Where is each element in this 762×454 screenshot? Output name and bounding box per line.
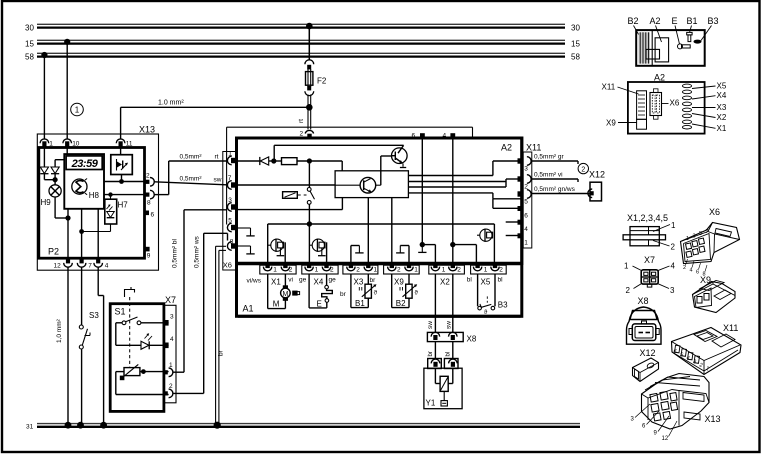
node diodes join [44,177,57,182]
wire P2 pin2 to X6 pin7 (sw) [154,176,226,185]
connector drawing X11 (isometric) [672,323,742,375]
svg-text:F2: F2 [317,77,327,86]
svg-text:B3: B3 [498,301,508,310]
svg-text:0,5mm² ws: 0,5mm² ws [194,235,201,268]
X11 pin 4 [518,220,529,233]
svg-text:1: 1 [228,151,232,158]
svg-text:8: 8 [230,239,234,246]
connector drawing X8 (face) [627,296,662,344]
X11 pin1 inner stub [506,235,521,237]
temperature sensor B1 under X3 [351,274,378,308]
svg-text:0,5mm² gr: 0,5mm² gr [534,154,564,161]
fuse F2 [306,69,327,87]
X11 pin 5 [518,190,532,206]
connector X13 enclosure [37,125,158,271]
A2 top pin 6 [412,133,425,140]
potentiometer in S1 [116,364,169,394]
svg-text:2: 2 [457,267,461,274]
glow plug E under X4 [309,274,332,309]
bus 31 [26,424,580,431]
X13 pin 9 (right, square) [145,247,151,260]
svg-text:P2: P2 [48,247,59,257]
svg-text:br: br [340,291,347,298]
svg-text:E: E [317,300,322,309]
svg-text:4: 4 [443,133,447,140]
svg-text:1: 1 [414,267,418,274]
connector X12 [588,170,605,201]
connector X1 housing [260,264,296,287]
display 23:59 [66,156,102,170]
svg-text:X11: X11 [723,323,738,333]
connector drawing X12 (isometric) [633,348,659,382]
svg-text:3: 3 [170,314,174,321]
svg-text:2: 2 [169,383,173,390]
svg-text:X1: X1 [271,278,281,287]
top inner wire to transistor [274,145,403,161]
base wire IC to Q1 [381,156,392,185]
svg-text:X8: X8 [467,335,477,344]
manual actuator above S1 [125,287,135,297]
X11 pin 6 [518,206,529,220]
X6 pin 3 [227,197,236,211]
A2 layout labels X11 X9 X6 [602,83,680,128]
svg-text:X12: X12 [640,348,656,358]
wire H8 to P2 pin 2 [104,181,145,183]
svg-text:6: 6 [412,133,416,140]
svg-text:sw: sw [214,177,222,184]
svg-text:B1: B1 [687,16,698,26]
svg-text:2: 2 [397,267,401,274]
A2 top pin 2 [300,130,314,138]
svg-text:X5: X5 [481,278,491,287]
svg-text:rt: rt [298,119,305,123]
connector X4 housing [302,264,338,287]
wire pin11 into opto box [120,147,122,155]
svg-text:vi/ws: vi/ws [247,277,262,284]
connector X3 housing [343,264,378,287]
svg-text:X6: X6 [670,99,680,108]
connector pair above F2 [305,60,314,70]
connector pair below F2 [305,86,314,96]
svg-text:br: br [218,349,225,356]
dashed actuator link in S1 [129,297,131,368]
svg-text:6: 6 [696,270,699,276]
A2 top pin 4 [443,133,456,140]
LED H7 box [105,199,128,224]
wire lamp to pin12 wire [55,197,71,221]
motor M under X1 [268,274,300,309]
svg-text:31: 31 [26,424,34,431]
bus 30 [25,23,580,32]
H7 stub to pin8 line [108,192,112,199]
svg-text:2: 2 [626,286,631,295]
bus 58 [25,52,580,61]
X13 pin 4 (bottom) [94,258,109,269]
wire pin10 into H8 box [66,147,68,155]
svg-text:1: 1 [671,221,676,230]
bus 15 [25,39,580,48]
transistor Q1 [392,145,408,167]
X13 pin 11 [116,139,133,148]
svg-text:X11: X11 [602,83,616,92]
svg-text:15: 15 [25,39,34,48]
X13 pin 2 (right) [145,172,155,186]
svg-text:30: 30 [571,23,580,32]
wire P2 pin8 to X6 pin1 (rt) [154,154,226,195]
wire 1.0mm2 from X13 pin11 to F2 node [121,100,310,140]
svg-text:X6: X6 [709,207,720,217]
LED in S1 [116,323,169,350]
X11 pin4 inner stub [506,221,521,223]
svg-text:1.0 mm²: 1.0 mm² [158,100,184,107]
svg-text:2: 2 [330,267,334,274]
svg-text:X4: X4 [314,278,324,287]
clock module H8 box [64,154,104,209]
svg-text:bl: bl [498,277,504,284]
svg-text:0,5mm² bl: 0,5mm² bl [172,239,179,268]
wire pin4 to bus31 [98,267,107,429]
svg-text:1: 1 [49,141,53,148]
X7 pin 1 [163,362,173,377]
connector X8 [427,332,476,343]
svg-text:2: 2 [499,267,503,274]
wires X2 to X8 (sw) [427,274,453,333]
connector drawing X1,2,3,4,5 [623,213,676,252]
svg-text:1: 1 [442,267,446,274]
wire X6 pin5 over A2 top [227,127,473,224]
A2 top pin4 wire down to X2/X5 [450,138,476,264]
svg-text:7: 7 [88,263,92,270]
heater overview box with B2 A2 E B1 B3 [628,16,719,66]
svg-text:ge: ge [329,276,337,283]
svg-text:12: 12 [54,263,62,270]
X6 pin7 wire into IC [238,184,335,186]
X13 pin 6 (right, square) [145,211,155,219]
svg-text:4: 4 [170,336,174,343]
X11 pin 2 [518,175,532,191]
svg-text:bl: bl [467,277,473,284]
X9 pin1 stub [396,246,409,264]
connector X11 enclosure [523,143,541,249]
svg-text:M: M [282,291,288,298]
svg-text:X9: X9 [606,119,616,128]
svg-text:X1,2,3,4,5: X1,2,3,4,5 [627,213,668,223]
svg-text:X12: X12 [589,170,605,180]
svg-text:H7: H7 [118,201,129,210]
optocoupler box in P2 [111,155,133,175]
H8 bottom wires to pins 12 7 4 [68,209,98,258]
svg-text:30: 30 [25,23,34,32]
X6 pin8 inner stub [238,246,255,254]
centre distribution node [268,221,495,263]
svg-text:0,5mm²: 0,5mm² [180,176,203,183]
X6 pin 1 [227,151,236,165]
svg-text:X11: X11 [526,143,541,153]
connector X6 enclosure [223,152,237,271]
svg-text:5: 5 [524,199,528,206]
svg-text:X13: X13 [139,125,155,135]
IC wire down to X3 pin1 [367,198,369,264]
svg-text:X8: X8 [638,296,649,306]
svg-text:vi: vi [288,276,293,283]
IC output lines to X11 [408,161,520,199]
svg-text:11: 11 [126,141,133,148]
wire colour labels row [247,276,504,298]
svg-text:rt: rt [215,154,219,161]
wire X7 pin2 to X6 pin8 (ws) [173,233,228,393]
wire pin7 via switch S3 to bus31 [77,267,87,429]
X7 pin 4 [163,336,174,348]
wire pin12 to bus31 [56,267,71,429]
X13 pin 10 [63,139,80,148]
svg-text:X9: X9 [394,278,404,287]
X6 pin 5 [227,218,236,232]
svg-text:1: 1 [315,267,319,274]
switch in A2 on centre wire [307,164,314,224]
svg-text:58: 58 [25,52,34,61]
A2 top pin6 wire down to node [418,138,435,264]
svg-text:3: 3 [524,166,528,173]
connector X9 housing [384,264,420,287]
svg-text:2: 2 [300,131,304,138]
overheat switch B3 under X5 [478,274,509,316]
svg-text:1: 1 [75,105,80,114]
svg-text:9: 9 [147,253,151,260]
svg-text:1: 1 [686,236,689,242]
svg-text:A1: A1 [243,304,254,314]
flame detector symbol at X5 [477,229,493,242]
A2 layout labels X5 X4 X3 X2 X1 [692,82,727,133]
svg-text:6: 6 [524,213,528,220]
svg-text:3: 3 [228,197,232,204]
double wire F2 to A2 pin2, junction dot [298,95,313,130]
circled 2 [578,163,588,173]
svg-text:1: 1 [484,267,488,274]
svg-text:X3: X3 [717,103,727,112]
svg-text:0,5mm² gn/ws: 0,5mm² gn/ws [534,186,576,193]
svg-text:X2: X2 [440,278,450,287]
svg-text:E: E [672,16,678,26]
svg-text:H9: H9 [41,198,52,207]
lamp H9 [41,185,62,207]
svg-text:5: 5 [228,218,232,225]
wire opto to pin2 line [119,175,124,184]
svg-text:1: 1 [524,240,528,247]
X13 pin 12 (bottom) [54,258,73,269]
svg-text:4: 4 [105,263,109,270]
X6 pin 7 [227,175,236,189]
svg-text:S1: S1 [115,307,126,317]
svg-text:2: 2 [289,267,293,274]
svg-text:7: 7 [706,229,709,235]
svg-text:8: 8 [147,200,151,207]
svg-text:br: br [428,351,434,356]
timer P2 box [39,148,145,259]
svg-text:X2: X2 [717,113,727,122]
svg-text:B2: B2 [628,16,639,26]
svg-text:X7: X7 [165,295,176,305]
X13 pin 8 (right) [145,190,155,206]
double wire X6 pin8 to bus31 (br) [214,246,226,429]
A2 connector row (bottom edge of A2) [238,262,521,265]
svg-text:3: 3 [670,286,675,295]
temperature sensor B2 under X9 [392,274,419,308]
svg-text:23:59: 23:59 [71,158,99,170]
svg-text:5: 5 [699,231,702,237]
svg-text:1: 1 [273,267,277,274]
A2 connector layout box [628,73,705,134]
wire bus58 to X13 pin1 [41,52,47,140]
svg-text:X3: X3 [354,278,364,287]
diode in A2 [238,157,276,165]
X6 pin3 wire into IC bottom [238,198,342,210]
wire gr from X11 pin3 [531,154,578,164]
transistor Q2 in IC box [335,177,381,193]
wire X7 pin1 to X6 pin3 (bl) [172,210,227,372]
svg-text:X7: X7 [644,255,655,265]
solenoid valve Y1 [424,368,462,409]
svg-text:X6: X6 [223,261,232,270]
Y1 pin housings [428,359,458,369]
svg-text:2: 2 [581,166,585,173]
connector drawing X9 (isometric) [693,275,736,313]
circled 1 [71,103,84,116]
flame detector symbol at X4 [309,239,326,264]
svg-text:58: 58 [571,52,580,61]
svg-text:H8: H8 [89,191,100,200]
switch unit S1 box [110,304,164,412]
switch S3 label and actuator [85,311,100,336]
X11 pin6 inner stub [493,199,521,209]
svg-text:0,5mm²: 0,5mm² [180,154,203,161]
svg-text:X5: X5 [717,82,727,91]
connector X2 housing [429,264,465,287]
svg-text:ge: ge [299,276,307,283]
wire bus30 down to F2 [306,23,313,61]
svg-text:S3: S3 [89,311,99,320]
wire vi from X11 pin2 [531,172,578,182]
connector drawing X6 (isometric) [681,207,740,278]
X13 pin 7 (bottom) [77,258,92,269]
connector X7 enclosure [164,295,176,403]
X11 pin 3 [518,157,532,173]
IC wire down to X9 pin2 [391,198,393,264]
svg-text:A2: A2 [650,16,661,26]
svg-text:0,5mm² vi: 0,5mm² vi [534,172,563,179]
svg-text:1: 1 [169,362,173,369]
wires X8 to Y1 [428,342,453,359]
svg-text:2: 2 [683,265,686,271]
svg-text:2: 2 [671,243,676,252]
svg-text:X4: X4 [717,91,727,100]
svg-text:12: 12 [662,436,669,442]
connector X5 housing [471,264,507,287]
flame detector symbol at X1 [268,239,286,264]
svg-text:4: 4 [690,268,693,274]
X7 pin 2 [163,383,173,398]
resistor in A2 [274,158,342,171]
connector drawing X7 (face) [624,255,676,295]
svg-text:B1: B1 [355,299,365,308]
svg-text:M: M [273,300,280,309]
svg-text:2: 2 [356,267,360,274]
A1 bottom edge [238,315,521,318]
X6 pin 8 [227,239,236,251]
svg-text:4: 4 [524,226,528,233]
X7 pin 3 [163,314,174,326]
X3 pin2 stub [351,246,364,264]
motor symbol in H8 [72,179,87,195]
svg-text:sw: sw [427,321,434,329]
IC box in A2 [335,171,408,198]
svg-text:B3: B3 [708,16,719,26]
svg-text:B2: B2 [396,299,406,308]
X11 pin 1 [518,233,529,246]
svg-text:X1: X1 [717,124,727,133]
svg-text:1: 1 [374,267,378,274]
svg-text:sw: sw [445,321,452,329]
svg-text:10: 10 [72,141,80,148]
X6 pin5 inner stub [238,228,255,236]
wire gn/ws from X11 pin5 to X12 [531,186,590,193]
svg-text:Y1: Y1 [426,399,436,408]
switch contact in S1 [116,317,169,325]
svg-text:3: 3 [693,234,696,240]
diode V2 in P2 [51,160,64,185]
heater unit A1 box [237,138,522,316]
svg-text:A2: A2 [501,143,512,153]
svg-text:7: 7 [228,175,232,182]
connector drawing X13 (isometric) [631,374,721,443]
wire H8 to P2 pin 8 [104,194,145,196]
X13 pin 1 [40,139,53,148]
diode V1 in P2 [40,147,48,180]
svg-text:br: br [370,277,377,284]
svg-text:bl: bl [446,352,452,357]
svg-text:A2: A2 [654,73,665,83]
svg-text:1,0 mm²: 1,0 mm² [56,318,63,343]
svg-text:X13: X13 [705,414,721,424]
relay coil symbol in A2 [283,192,307,199]
svg-text:4: 4 [671,261,676,270]
H7 bottom to pin7 wire [79,224,110,234]
svg-text:2: 2 [146,172,150,179]
wire bus15 to X13 pin10 [64,39,70,140]
svg-text:15: 15 [571,39,580,48]
svg-text:6: 6 [151,212,155,219]
svg-text:1: 1 [624,261,629,270]
control unit A2 box [237,138,522,264]
